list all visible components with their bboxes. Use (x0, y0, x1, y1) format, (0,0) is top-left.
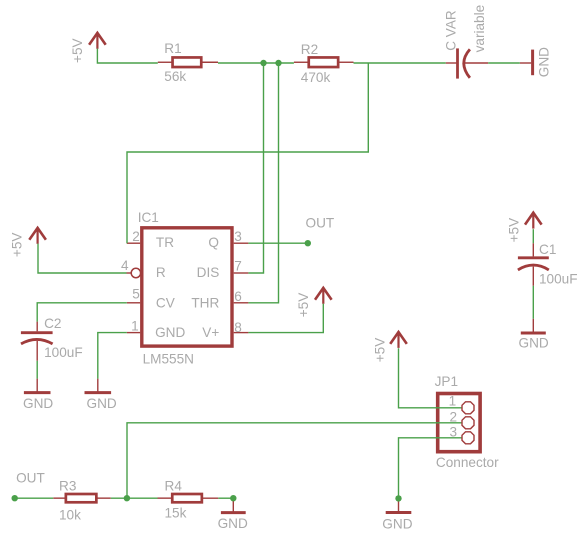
resistor R3 (53, 479, 111, 523)
svg-text:3: 3 (449, 424, 457, 439)
resistor R2 (294, 42, 354, 85)
svg-text:+5V: +5V (10, 233, 25, 258)
svg-text:+5V: +5V (372, 338, 387, 363)
wire R2 to C VAR (354, 62, 446, 64)
svg-text:DIS: DIS (197, 265, 220, 280)
svg-text:C2: C2 (44, 316, 61, 331)
svg-text:R1: R1 (164, 41, 181, 56)
power +5V (VCC at C1) (507, 212, 542, 242)
power +5V (VCC at reset pin) (10, 227, 46, 257)
svg-text:R2: R2 (301, 42, 318, 57)
ground GND (below R4) (218, 498, 248, 531)
wire to DIS pin 7 (248, 63, 263, 273)
op-amp/timer IC1 LM555N (121, 210, 248, 367)
svg-text:1: 1 (449, 394, 457, 409)
capacitor C1 (518, 242, 578, 286)
wire +5V to R pin 4 (38, 244, 127, 273)
svg-text:2: 2 (449, 410, 457, 425)
wire JP1 pin 3 to ground (399, 438, 462, 499)
ground GND (below C1) (519, 319, 549, 351)
power +5V (VCC at V+ pin) (296, 287, 332, 317)
capacitor C2 (21, 316, 83, 361)
svg-text:GND: GND (382, 516, 412, 531)
svg-text:C1: C1 (539, 242, 556, 257)
wire to THR pin 6 (248, 63, 278, 303)
resistor R4 (158, 479, 219, 521)
svg-text:3: 3 (234, 229, 242, 244)
wire to TR pin 2 (127, 63, 368, 243)
svg-text:470k: 470k (301, 70, 331, 85)
wire +5V to JP1 pin 1 (399, 348, 462, 408)
JP1 pad 2 (462, 417, 474, 429)
svg-text:2: 2 (132, 229, 140, 244)
ground GND (below IC1 pin 1) (85, 379, 117, 411)
wire +5V to R1 (97, 49, 157, 63)
wire C2 to ground (36, 361, 38, 379)
wire R3 to R4 (111, 497, 158, 499)
wire +5V to C1 (532, 229, 534, 243)
connector JP1 (435, 374, 499, 470)
wire CV pin 5 to C2 (37, 303, 127, 322)
wire Q to OUT (248, 242, 307, 244)
junction JP1 pin 3 wire (395, 495, 401, 501)
svg-text:10k: 10k (59, 508, 81, 523)
ground GND (top right, rotated) (520, 47, 552, 77)
svg-text:OUT: OUT (306, 215, 335, 230)
svg-text:56k: 56k (164, 69, 186, 84)
power +5V (VCC at JP1 pin 1) (372, 331, 406, 362)
svg-text:R4: R4 (165, 479, 183, 494)
svg-text:8: 8 (234, 320, 242, 335)
svg-text:15k: 15k (165, 506, 187, 521)
connector JP1 pads and pin numbers (449, 394, 474, 444)
svg-text:THR: THR (191, 295, 219, 310)
wire C1 to ground (532, 286, 534, 319)
junction rail to THR (275, 60, 281, 66)
svg-text:100uF: 100uF (539, 271, 578, 286)
svg-text:6: 6 (234, 289, 242, 304)
svg-text:+5V: +5V (296, 293, 311, 318)
svg-text:4: 4 (121, 258, 129, 273)
node OUT at Q (305, 240, 311, 246)
wire R4 to ground (218, 497, 233, 499)
svg-text:TR: TR (156, 235, 174, 250)
svg-text:GND: GND (23, 396, 53, 411)
svg-text:GND: GND (87, 396, 117, 411)
power +5V (VCC top-left) (70, 32, 106, 63)
junction R3/R4 to JP1 pin 2 (124, 495, 130, 501)
resistor R1 (158, 41, 218, 84)
svg-text:5: 5 (132, 286, 140, 301)
svg-text:Q: Q (208, 235, 219, 250)
svg-text:+5V: +5V (70, 38, 85, 63)
svg-text:R3: R3 (59, 479, 76, 494)
wire JP1 pin 2 to R3/R4 node (127, 423, 462, 498)
svg-text:100uF: 100uF (44, 345, 83, 360)
svg-text:GND: GND (155, 325, 185, 340)
svg-text:V+: V+ (202, 325, 219, 340)
junction R1/R2 to DIS (260, 60, 266, 66)
ground GND (below C2) (23, 379, 53, 411)
wire GND pin 1 to ground (98, 333, 127, 379)
junction R4 to ground (230, 495, 236, 501)
wire V+ to +5V (248, 304, 323, 333)
svg-text:OUT: OUT (16, 471, 45, 486)
svg-text:CV: CV (156, 295, 175, 310)
svg-text:JP1: JP1 (435, 374, 458, 389)
svg-text:variable: variable (472, 5, 487, 53)
JP1 pad 3 (462, 432, 474, 444)
svg-text:GND: GND (537, 47, 552, 77)
svg-text:1: 1 (131, 319, 139, 334)
node OUT bottom left (12, 495, 18, 501)
capacitor C VAR (444, 5, 489, 79)
svg-text:7: 7 (234, 258, 242, 273)
svg-text:LM555N: LM555N (143, 352, 194, 367)
svg-text:IC1: IC1 (138, 210, 159, 225)
svg-text:R: R (156, 265, 166, 280)
JP1 pad 1 (462, 402, 474, 414)
svg-text:C VAR: C VAR (444, 10, 459, 51)
wire C VAR to GND (488, 62, 520, 64)
svg-text:GND: GND (519, 335, 549, 350)
svg-text:Connector: Connector (436, 455, 499, 470)
wire OUT to R3 (15, 497, 54, 499)
wire R1 to R2 (218, 62, 294, 64)
svg-text:GND: GND (218, 516, 248, 531)
svg-text:+5V: +5V (507, 218, 522, 243)
ground GND (below JP1) (382, 498, 412, 531)
